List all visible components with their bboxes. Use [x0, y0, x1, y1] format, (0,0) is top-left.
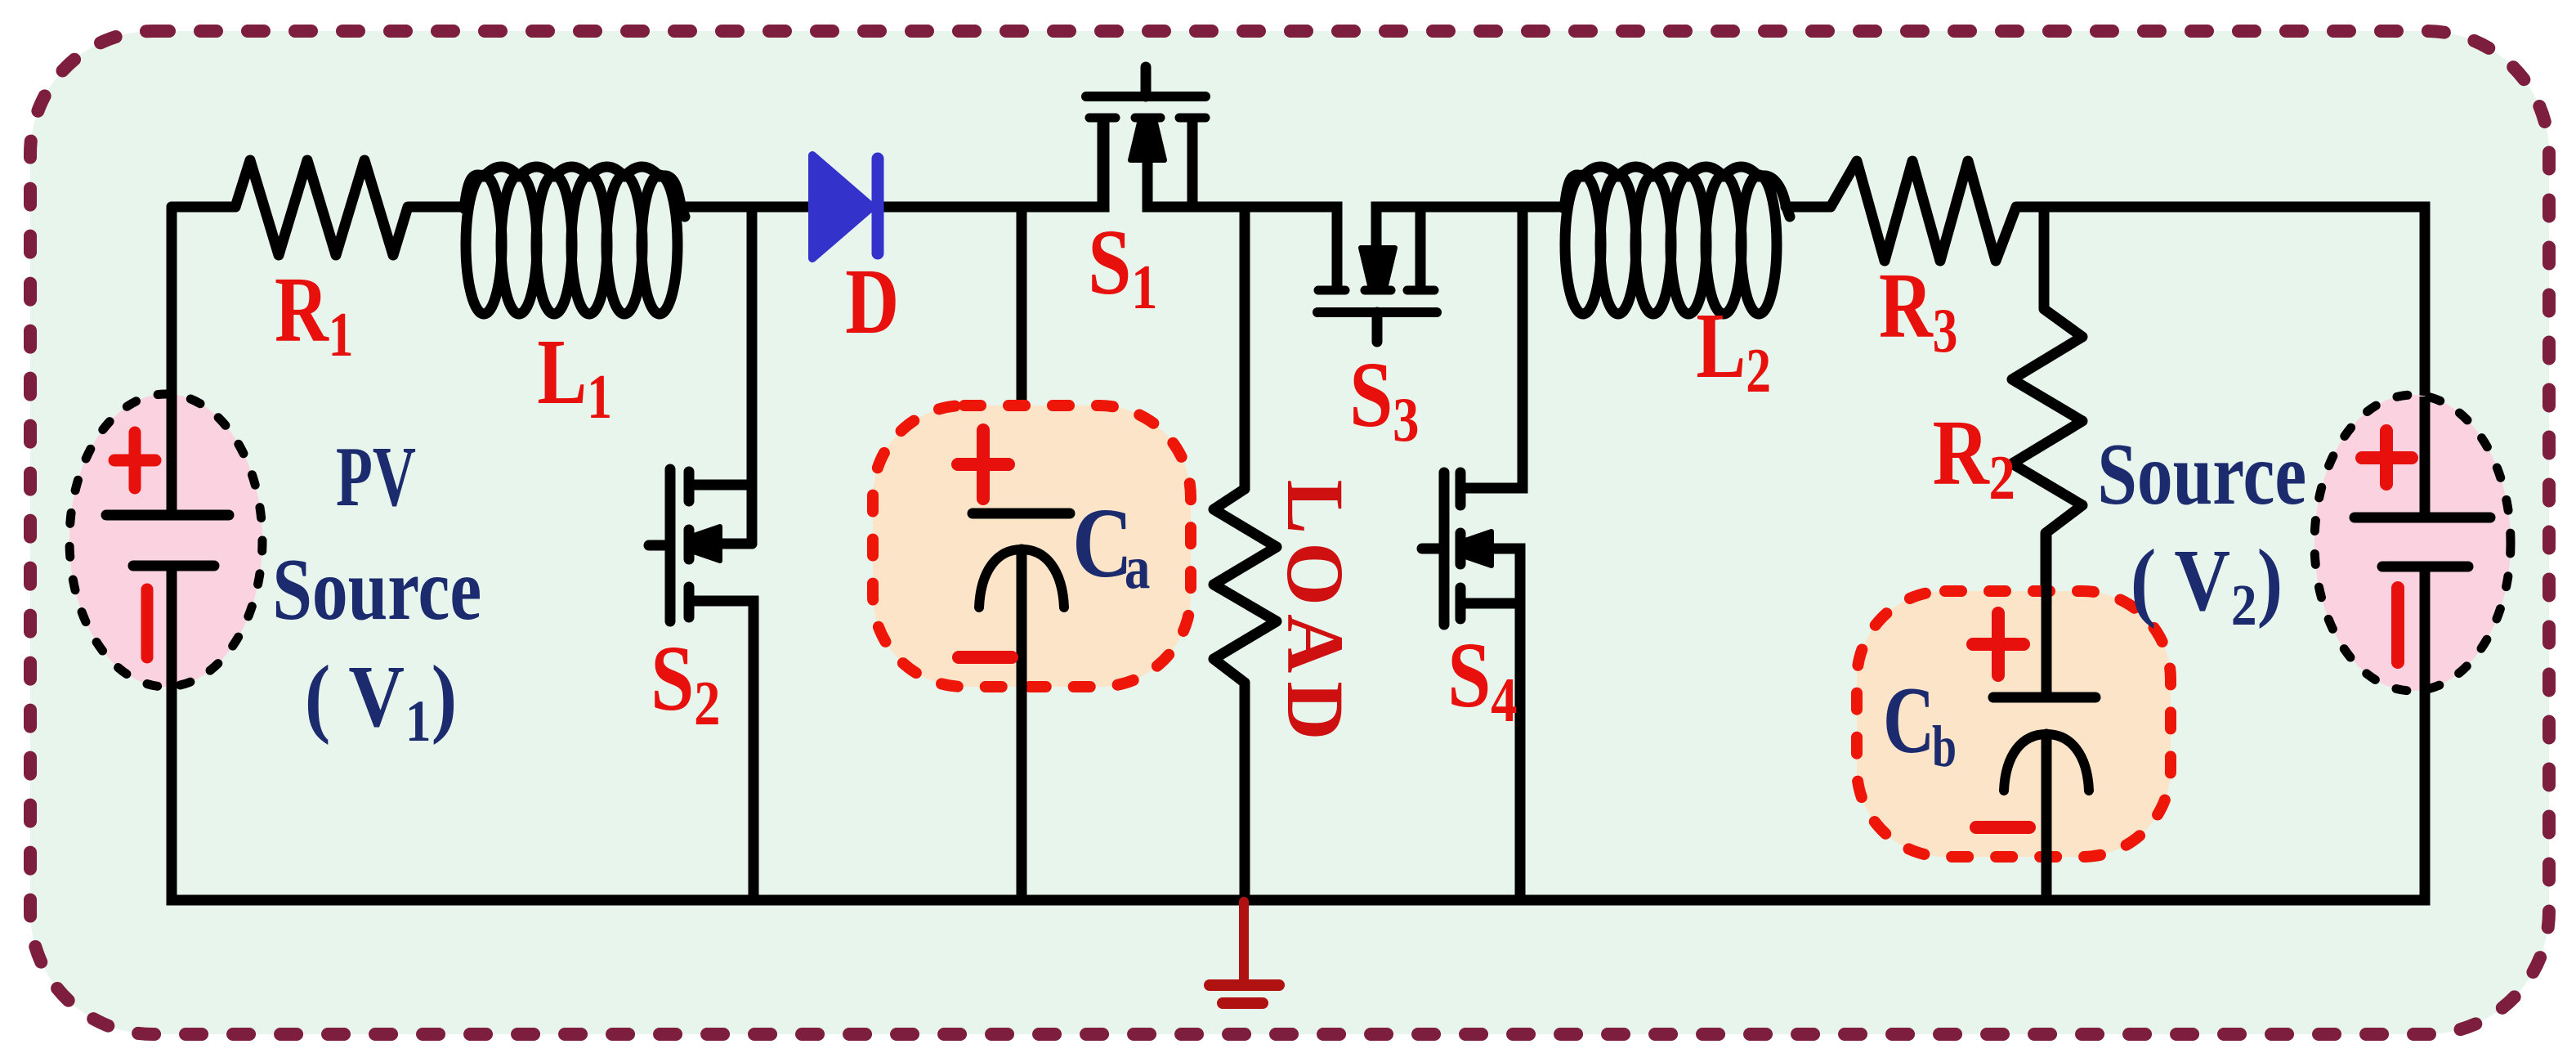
wire S2 branch upper — [747, 207, 758, 544]
svg-text:): ) — [2257, 531, 2283, 630]
wire bottom rail — [172, 566, 2425, 900]
resistor R3 — [1786, 161, 2044, 366]
svg-text:C: C — [1883, 668, 1934, 773]
svg-text:L: L — [1696, 295, 1746, 398]
transistor S3 — [1317, 207, 1566, 455]
wire top rail left segment — [172, 202, 235, 213]
svg-text:3: 3 — [1933, 297, 1958, 366]
svg-text:S: S — [651, 626, 694, 730]
transistor S2 — [649, 469, 754, 900]
svg-text:4: 4 — [1491, 666, 1517, 735]
label PV Source (V1) — [272, 428, 481, 754]
transistor S4 — [1422, 207, 1523, 900]
svg-text:S: S — [1447, 623, 1491, 727]
svg-text:Source: Source — [2097, 425, 2306, 523]
svg-text:1: 1 — [587, 363, 612, 432]
capacitor Ca — [873, 406, 1191, 900]
diode D — [812, 155, 899, 353]
svg-text:C: C — [1072, 489, 1133, 598]
svg-text:R: R — [1933, 401, 1990, 504]
transistor S1 — [1086, 67, 1337, 322]
svg-text:( V: ( V — [2131, 531, 2230, 630]
inductor L2 — [1564, 167, 1790, 406]
svg-text:b: b — [1932, 714, 1957, 779]
svg-text:2: 2 — [694, 670, 720, 738]
ground — [1210, 902, 1279, 1003]
load resistor — [1214, 480, 1361, 900]
PV source V1 — [69, 207, 262, 900]
svg-text:( V: ( V — [305, 648, 405, 746]
wire Ca branch upper — [1017, 207, 1027, 513]
svg-text:LOAD: LOAD — [1270, 480, 1361, 749]
capacitor Cb — [1857, 533, 2171, 900]
svg-text:Source: Source — [272, 540, 481, 639]
svg-text:1: 1 — [1131, 253, 1157, 322]
svg-text:3: 3 — [1393, 386, 1419, 455]
svg-text:1: 1 — [329, 301, 354, 370]
resistor R1 — [235, 160, 466, 370]
svg-text:): ) — [432, 648, 458, 746]
wire top rail right segment with corner drop — [2044, 207, 2425, 518]
source V2 — [2314, 395, 2511, 900]
resistor R2 — [1933, 207, 2082, 697]
svg-text:R: R — [1879, 255, 1934, 358]
wire LOAD branch upper — [1240, 207, 1250, 489]
label Source (V2) — [2097, 425, 2306, 638]
svg-text:2: 2 — [1988, 444, 2015, 513]
inductor L1 — [464, 167, 685, 432]
svg-text:a: a — [1125, 533, 1150, 601]
svg-text:1: 1 — [405, 688, 432, 754]
svg-text:D: D — [845, 251, 899, 354]
wire top rail from L1 to S1 source lead — [681, 123, 1104, 207]
svg-text:S: S — [1088, 210, 1131, 314]
svg-text:R: R — [275, 259, 329, 362]
svg-text:S: S — [1349, 343, 1393, 446]
svg-text:L: L — [537, 321, 587, 424]
svg-text:2: 2 — [2231, 572, 2257, 638]
svg-text:2: 2 — [1746, 337, 1771, 406]
svg-text:PV: PV — [336, 428, 416, 524]
